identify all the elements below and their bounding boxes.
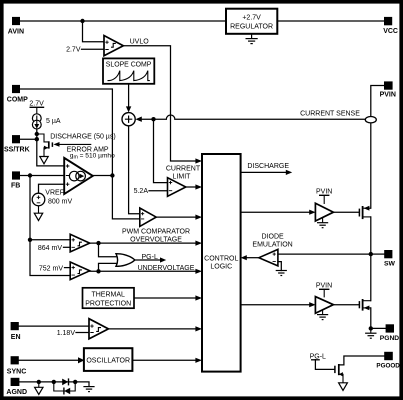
thermal protection block — [83, 288, 135, 308]
comparator diode emulation — [241, 233, 293, 266]
svg-text:PVIN: PVIN — [380, 92, 396, 99]
wire PG-L to PGOOD transistor gate — [315, 360, 334, 370]
ground earth on AGND end — [83, 382, 94, 392]
wire SS/TRK to current source node — [20, 138, 37, 140]
svg-text:CURRENT: CURRENT — [166, 165, 201, 172]
wire diode emulation output to CONTROL LOGIC — [246, 257, 259, 259]
wire FB branch to UV comparator - input — [30, 240, 70, 276]
slope compensation block — [103, 58, 154, 83]
svg-text:PWM COMPARATOR: PWM COMPARATOR — [122, 229, 190, 236]
wire oscillator output to CONTROL LOGIC — [132, 359, 195, 361]
svg-text:2.7V: 2.7V — [66, 47, 81, 54]
wire 752mV to UV comparator + input — [65, 267, 71, 269]
pin SS/TRK — [4, 135, 30, 153]
svg-text:PVIN: PVIN — [316, 188, 332, 195]
transistor Q1 discharge — [37, 133, 116, 156]
svg-text:PG-L: PG-L — [142, 254, 158, 261]
wire COMP to PWM comparator - input — [20, 89, 140, 219]
svg-text:1.18V: 1.18V — [57, 330, 76, 337]
wire 864mV to OV comparator - input — [64, 246, 71, 248]
node error amp output / COMP — [110, 173, 114, 177]
node FB junction — [28, 173, 32, 177]
wire PWM comparator output to CONTROL LOGIC — [156, 216, 195, 218]
svg-text:864 mV: 864 mV — [38, 245, 62, 252]
wire PGOOD transistor drain to PGOOD pin — [339, 356, 384, 365]
or-gate PG-L — [116, 254, 166, 267]
node PGND junction — [369, 326, 373, 330]
ground under diode emulation — [276, 271, 287, 276]
svg-text:FB: FB — [11, 183, 20, 190]
svg-text:5.2A: 5.2A — [134, 188, 149, 195]
svg-text:SLOPE COMP: SLOPE COMP — [106, 62, 152, 69]
transistor Q3 PGOOD — [310, 353, 343, 383]
svg-text:OVERVOLTAGE: OVERVOLTAGE — [130, 237, 182, 244]
svg-text:CURRENT SENSE: CURRENT SENSE — [300, 111, 360, 118]
wire high-side source to SW node — [370, 217, 372, 254]
svg-text:800 mV: 800 mV — [48, 198, 72, 205]
svg-text:EN: EN — [11, 334, 21, 341]
svg-text:COMP: COMP — [7, 97, 28, 104]
wire OV output to CONTROL LOGIC — [90, 242, 196, 244]
wire AVIN branch to UVLO + input — [83, 21, 105, 42]
svg-text:VREF: VREF — [45, 189, 64, 196]
pin EN — [11, 322, 21, 341]
ground arrow under discharge transistor — [40, 157, 48, 164]
comparator undervoltage — [39, 262, 195, 280]
op-amp error amp — [64, 146, 115, 194]
wire current sense branch to current limit + input — [154, 119, 168, 182]
buffer high-side driver — [315, 188, 333, 222]
ground arrow on AGND — [35, 382, 43, 395]
comparator current limit — [134, 165, 201, 196]
pin SW — [384, 250, 396, 267]
wire current sense line with hop — [142, 115, 365, 119]
wire UV output to CONTROL LOGIC — [90, 270, 196, 272]
svg-text:REGULATOR: REGULATOR — [230, 24, 273, 31]
pin PGOOD — [376, 352, 400, 370]
ground under high-side driver — [317, 223, 328, 228]
wire rail oval to high-side drain — [370, 123, 372, 208]
svg-text:gm = 510 µmho: gm = 510 µmho — [70, 153, 115, 161]
control logic block — [202, 154, 241, 372]
wire regulator to VCC — [277, 20, 384, 22]
wire current source node to error amp + input — [37, 129, 64, 166]
node FB / OV branch — [28, 238, 32, 242]
wire SW node to low-side drain — [370, 254, 372, 301]
svg-text:THERMAL: THERMAL — [91, 291, 125, 298]
wire OR gate output PG-L — [135, 259, 161, 261]
svg-text:2.7V: 2.7V — [29, 100, 44, 107]
svg-text:EMULATION: EMULATION — [252, 241, 292, 248]
wire SW line to diode emulation input — [278, 253, 371, 255]
comparator PWM — [122, 208, 190, 236]
svg-text:LOGIC: LOGIC — [210, 264, 232, 271]
pin PGND — [380, 324, 399, 342]
node current sense branch — [151, 117, 155, 121]
wire diode emulation - input to ground — [278, 262, 281, 271]
wire EN to comparator + input — [19, 325, 89, 327]
wire error amp output — [93, 175, 113, 177]
buffer low-side driver — [315, 282, 333, 314]
svg-text:5 µA: 5 µA — [46, 118, 61, 125]
wire AGND net — [19, 381, 89, 383]
svg-text:UVLO: UVLO — [130, 39, 150, 46]
transistor M2 low-side — [359, 299, 370, 311]
transistor M1 high-side — [359, 206, 370, 219]
svg-text:SYNC: SYNC — [7, 369, 26, 376]
current source I1 5uA — [29, 100, 60, 129]
node SS/TRK junction — [35, 137, 39, 141]
wire UVLO output to CONTROL LOGIC — [123, 46, 195, 161]
pin FB — [11, 171, 20, 189]
wire FB branch to OV comparator + input — [30, 176, 70, 240]
ground arrow under PGOOD transistor — [339, 383, 348, 391]
svg-text:PGOOD: PGOOD — [376, 363, 400, 370]
node AVIN/UVLO junction — [80, 19, 84, 23]
wire VREF to error amp + input — [39, 184, 65, 193]
wire SYNC to oscillator — [19, 359, 79, 361]
node AGND diode right — [73, 380, 77, 384]
wire CONTROL LOGIC to high-side driver — [241, 211, 310, 213]
svg-text:PVIN: PVIN — [316, 282, 332, 289]
svg-text:UNDERVOLTAGE: UNDERVOLTAGE — [138, 265, 195, 272]
wire 2.7V to UVLO - input — [82, 48, 105, 50]
ground under regulator — [246, 34, 258, 44]
wire slope comp to summing node — [128, 84, 130, 107]
svg-text:OSCILLATOR: OSCILLATOR — [86, 358, 130, 365]
svg-text:CONTROL: CONTROL — [204, 256, 238, 263]
svg-text:DISCHARGE: DISCHARGE — [247, 163, 289, 170]
svg-text:PGND: PGND — [380, 335, 399, 342]
wire low-side driver to gate — [333, 304, 359, 306]
node SW junction — [369, 252, 373, 256]
svg-text:DIODE: DIODE — [262, 233, 285, 240]
pin AGND — [6, 378, 27, 396]
pin COMP — [7, 85, 28, 104]
wire low-side source to PGND node — [370, 308, 372, 329]
pin SYNC — [7, 356, 26, 375]
ground PGND — [365, 328, 376, 338]
ground under low-side driver — [317, 315, 328, 320]
svg-text:LIMIT: LIMIT — [173, 173, 192, 180]
comparator overvoltage — [38, 234, 182, 252]
pin VCC — [383, 17, 398, 35]
ground arrow under VREF — [34, 213, 42, 220]
svg-text:+2.7V: +2.7V — [242, 15, 261, 22]
svg-text:PROTECTION: PROTECTION — [85, 300, 131, 307]
arrowhead into low-side driver — [309, 302, 315, 307]
pin AVIN — [8, 17, 24, 36]
diode D2 — [54, 382, 75, 395]
diode D1 — [62, 378, 68, 385]
svg-text:VCC: VCC — [383, 28, 398, 35]
node OV / OR branch — [96, 241, 100, 245]
wire PVIN pin to current sense rail — [371, 86, 384, 117]
wire thermal protection output to CONTROL LOGIC — [134, 297, 196, 299]
current sensor oval — [300, 111, 376, 123]
wire UV branch to OR gate input 2 — [99, 263, 117, 271]
pin PVIN — [380, 81, 396, 98]
svg-text:SW: SW — [384, 260, 396, 267]
wire current limit output to CONTROL LOGIC — [186, 186, 196, 188]
arrowhead into high-side driver — [309, 210, 315, 215]
summing node — [122, 106, 142, 125]
svg-text:752 mV: 752 mV — [39, 266, 63, 273]
comparator UVLO — [66, 36, 149, 56]
svg-text:SS/TRK: SS/TRK — [4, 147, 30, 154]
wire CONTROL LOGIC to low-side driver — [241, 304, 310, 306]
voltage source VREF 800mV — [32, 189, 72, 213]
svg-text:AGND: AGND — [6, 389, 27, 396]
comparator EN — [57, 319, 109, 339]
wire 1.18V to comparator - input — [76, 332, 89, 334]
node AGND arrow branch — [37, 380, 41, 384]
oscillator block — [78, 348, 132, 371]
control logic input arrowheads — [195, 158, 202, 363]
wire summing node to PWM comparator + input — [129, 126, 140, 214]
wire PGND node to PGND pin — [371, 327, 386, 329]
node AGND diode left — [52, 380, 56, 384]
node DISCHARGE output — [247, 163, 292, 175]
regulator U1 +2.7V — [226, 9, 277, 34]
wire high-side driver to gate — [333, 211, 359, 213]
node current source / discharge drain — [35, 132, 39, 136]
node UV / OR branch — [96, 269, 100, 273]
wire AVIN to regulator — [20, 20, 226, 22]
svg-text:AVIN: AVIN — [8, 29, 24, 36]
wire OV branch to OR gate input 1 — [99, 243, 117, 257]
wire FB to error amp - input — [20, 175, 64, 177]
wire SW node to SW pin — [371, 253, 384, 255]
wire EN comparator output to CONTROL LOGIC — [108, 328, 195, 330]
wire 5.2A to current limit - input — [149, 190, 168, 192]
svg-text:DISCHARGE (50 µs): DISCHARGE (50 µs) — [50, 133, 116, 140]
wire CONTROL LOGIC discharge output — [241, 171, 287, 173]
